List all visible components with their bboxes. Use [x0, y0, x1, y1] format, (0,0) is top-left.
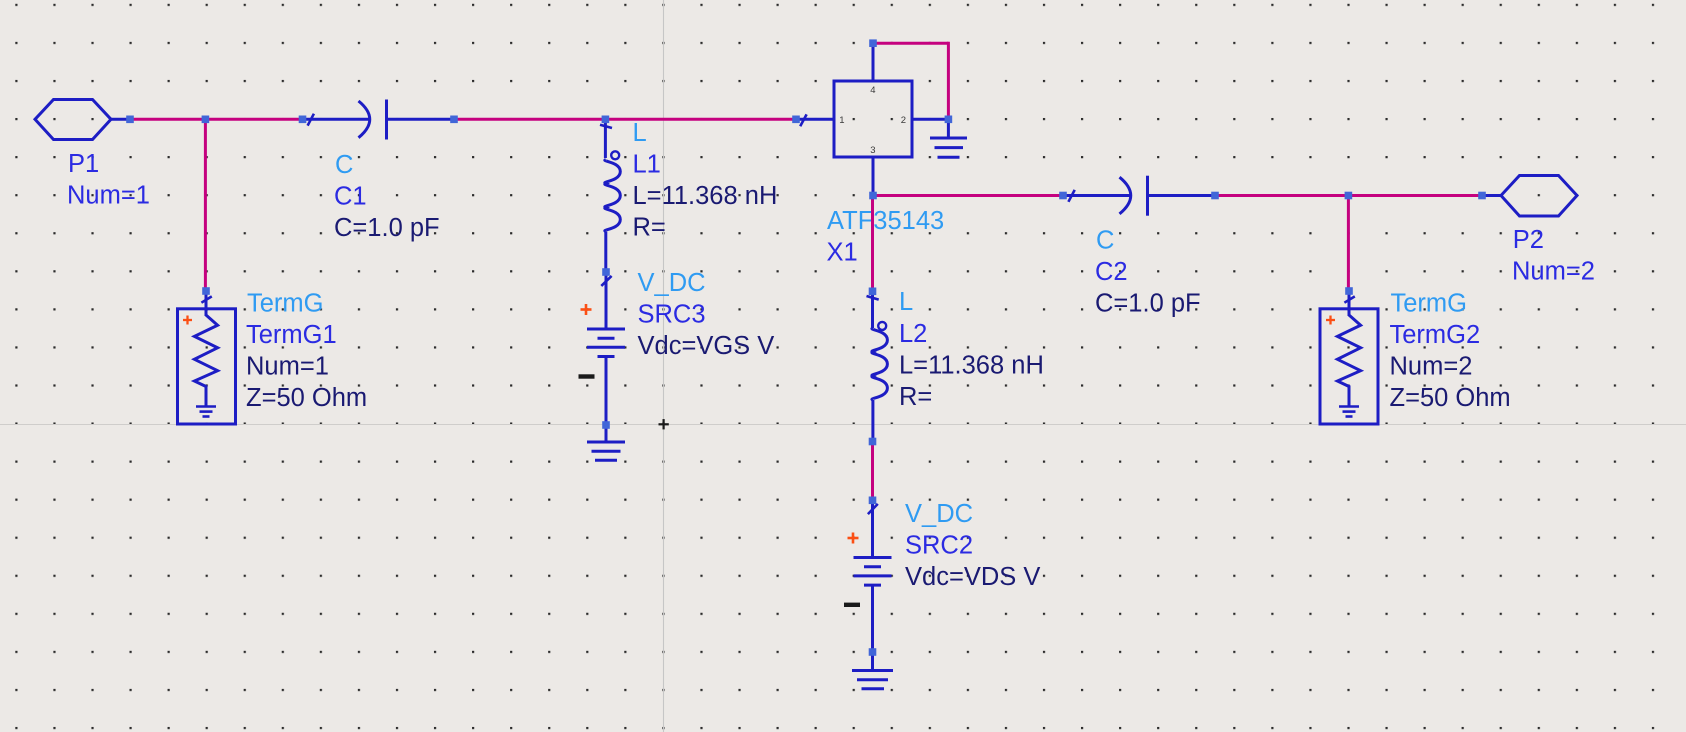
- wire top vertical to X1 pin2 node: [947, 42, 950, 120]
- svg-text:R=: R=: [633, 214, 666, 242]
- wire L2 to SRC2: [871, 442, 874, 501]
- svg-text:3: 3: [870, 145, 875, 156]
- termination TermG1 internal ground: [196, 407, 216, 417]
- svg-text:V_DC: V_DC: [638, 269, 706, 297]
- svg-text:Num=2: Num=2: [1390, 353, 1473, 381]
- svg-text:TermG2: TermG2: [1390, 321, 1481, 349]
- svg-text:Z=50 Ohm: Z=50 Ohm: [1390, 384, 1511, 412]
- svg-text:4: 4: [870, 85, 875, 96]
- wire junction to P2: [1348, 194, 1481, 197]
- wire X1 pin3 to C2: [873, 194, 1063, 197]
- capacitor C1: [303, 100, 455, 140]
- capacitor C2: [1063, 176, 1215, 216]
- svg-text:L1: L1: [633, 151, 661, 179]
- ground below SRC3: [587, 425, 625, 460]
- wire P1 to C1: [130, 118, 303, 121]
- dc source SRC3 minus sign: [579, 374, 595, 378]
- inductor L2: [867, 291, 888, 441]
- svg-text:L2: L2: [899, 320, 927, 348]
- svg-text:L=11.368 nH: L=11.368 nH: [633, 182, 778, 210]
- svg-text:TermG1: TermG1: [246, 321, 337, 349]
- svg-text:SRC2: SRC2: [905, 532, 973, 560]
- origin cross: [659, 419, 669, 429]
- svg-text:TermG: TermG: [1391, 290, 1468, 318]
- termination TermG2: [1320, 291, 1378, 424]
- dc source SRC2 minus sign: [844, 603, 860, 607]
- x axis line: [0, 424, 1686, 426]
- wire junction to TermG1: [204, 118, 207, 291]
- termination TermG2 internal ground: [1339, 407, 1359, 417]
- port P1: [35, 100, 130, 140]
- wire C2 to junction: [1215, 194, 1348, 197]
- termination TermG1 plus sign: [183, 316, 192, 325]
- svg-text:C=1.0 pF: C=1.0 pF: [1095, 290, 1201, 318]
- svg-text:P1: P1: [68, 150, 99, 178]
- svg-text:ATF35143: ATF35143: [827, 207, 944, 235]
- svg-text:C: C: [1096, 227, 1114, 255]
- svg-text:R=: R=: [899, 383, 932, 411]
- svg-text:L: L: [899, 288, 913, 316]
- port P2 labels: [1512, 226, 1595, 286]
- wire X1 pin4 top horizontal: [873, 42, 948, 45]
- svg-text:Num=1: Num=1: [67, 182, 150, 210]
- svg-text:1: 1: [839, 115, 844, 126]
- svg-text:2: 2: [901, 115, 906, 126]
- transistor X1: [796, 43, 948, 195]
- svg-text:C=1.0 pF: C=1.0 pF: [334, 214, 440, 242]
- port P1 labels: [67, 150, 150, 210]
- wire end node squares: [126, 39, 1486, 655]
- svg-text:SRC3: SRC3: [638, 301, 706, 329]
- svg-text:L=11.368 nH: L=11.368 nH: [899, 352, 1044, 380]
- svg-text:C1: C1: [334, 183, 367, 211]
- svg-text:Num=1: Num=1: [246, 353, 329, 381]
- y axis line: [663, 0, 665, 732]
- dc source SRC2 plus sign: [848, 533, 859, 544]
- ground at X1 pin2: [930, 119, 967, 157]
- inductor L1: [600, 119, 620, 272]
- svg-text:C: C: [335, 151, 353, 179]
- termination TermG2 plus sign: [1326, 316, 1335, 325]
- svg-text:V_DC: V_DC: [905, 500, 973, 528]
- wire X1 pin3 node down to L2: [871, 194, 874, 291]
- svg-text:L: L: [633, 119, 647, 147]
- svg-text:Vdc=VGS V: Vdc=VGS V: [638, 332, 775, 360]
- dc source SRC3 plus sign: [581, 304, 592, 315]
- dc source SRC3: [587, 272, 625, 425]
- svg-text:TermG: TermG: [247, 290, 324, 318]
- dc source SRC2: [854, 500, 892, 652]
- svg-text:Num=2: Num=2: [1512, 258, 1595, 286]
- svg-text:X1: X1: [827, 239, 858, 267]
- port P2: [1482, 176, 1577, 217]
- ground below SRC2: [852, 652, 893, 689]
- svg-text:Z=50 Ohm: Z=50 Ohm: [246, 384, 367, 412]
- svg-text:C2: C2: [1095, 258, 1128, 286]
- svg-text:P2: P2: [1513, 226, 1544, 254]
- wire C1 to X1 pin1: [454, 118, 796, 121]
- svg-text:Vdc=VDS V: Vdc=VDS V: [905, 563, 1040, 591]
- transistor X1 pin numbers: [839, 85, 906, 156]
- termination TermG1: [178, 291, 236, 424]
- wire junction to TermG2: [1347, 194, 1350, 291]
